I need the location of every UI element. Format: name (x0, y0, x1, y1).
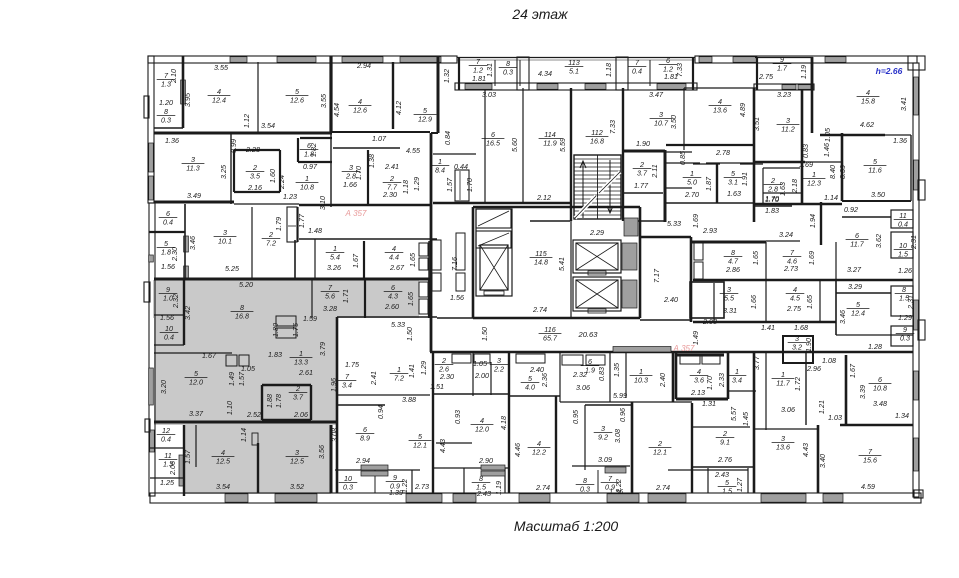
svg-text:1.49: 1.49 (227, 372, 236, 386)
wall grid horizontal (154, 132, 332, 135)
svg-text:5.60: 5.60 (510, 138, 519, 152)
svg-text:1.88: 1.88 (265, 394, 274, 408)
svg-text:4.12: 4.12 (394, 101, 403, 115)
svg-text:1.57: 1.57 (183, 449, 192, 464)
svg-text:10.8: 10.8 (873, 384, 887, 393)
svg-text:2.74: 2.74 (532, 305, 547, 314)
svg-text:1.65: 1.65 (408, 252, 417, 267)
svg-text:0.4: 0.4 (632, 67, 642, 76)
staircase (574, 155, 621, 219)
svg-text:4.3: 4.3 (388, 292, 398, 301)
svg-text:5.1: 5.1 (569, 67, 579, 76)
svg-text:8.40: 8.40 (828, 165, 837, 179)
svg-text:2.00: 2.00 (474, 371, 489, 380)
svg-text:3.06: 3.06 (781, 405, 795, 414)
outer wall right band (913, 63, 919, 497)
svg-text:0.83: 0.83 (597, 367, 606, 381)
svg-text:3.28: 3.28 (323, 304, 337, 313)
svg-text:7.2: 7.2 (394, 374, 404, 383)
svg-text:2.13: 2.13 (690, 388, 705, 397)
svg-text:2.86: 2.86 (725, 265, 740, 274)
svg-text:65.7: 65.7 (543, 334, 558, 343)
svg-text:3.10: 3.10 (318, 196, 327, 210)
svg-text:1.83: 1.83 (268, 350, 282, 359)
svg-text:2.90: 2.90 (478, 456, 493, 465)
svg-text:2.75: 2.75 (758, 72, 774, 81)
svg-text:3.5: 3.5 (250, 172, 261, 181)
svg-text:4.0: 4.0 (525, 383, 535, 392)
svg-text:16.8: 16.8 (590, 137, 604, 146)
svg-text:3.54: 3.54 (216, 482, 230, 491)
svg-text:h=2.66: h=2.66 (876, 66, 903, 76)
svg-text:2.43: 2.43 (476, 489, 491, 498)
svg-text:0.96: 0.96 (618, 408, 627, 422)
svg-text:2.40: 2.40 (663, 295, 678, 304)
svg-text:3.23: 3.23 (777, 90, 791, 99)
svg-text:7.16: 7.16 (450, 257, 459, 271)
top window hatches (230, 57, 247, 63)
svg-text:1.18: 1.18 (401, 180, 410, 194)
svg-text:1.67: 1.67 (202, 351, 217, 360)
svg-text:1.05: 1.05 (473, 359, 488, 368)
svg-text:1.5: 1.5 (898, 250, 909, 259)
svg-text:1.57: 1.57 (445, 177, 454, 192)
svg-text:1.5: 1.5 (722, 487, 733, 496)
svg-text:1.90: 1.90 (804, 338, 813, 352)
svg-text:1.81: 1.81 (472, 74, 486, 83)
svg-text:2.93: 2.93 (702, 226, 717, 235)
left small tabs (144, 96, 149, 118)
svg-text:12.6: 12.6 (290, 96, 304, 105)
svg-text:0.3: 0.3 (161, 116, 171, 125)
svg-text:3.46: 3.46 (838, 310, 847, 324)
svg-text:1.65: 1.65 (751, 250, 760, 265)
svg-text:5.41: 5.41 (557, 257, 566, 271)
svg-text:12.2: 12.2 (532, 448, 546, 457)
svg-text:2.40: 2.40 (658, 373, 667, 388)
svg-text:1.56: 1.56 (160, 313, 174, 322)
svg-text:1.28: 1.28 (868, 342, 882, 351)
svg-text:11.7: 11.7 (776, 379, 790, 388)
svg-text:12.1: 12.1 (653, 448, 667, 457)
balcony piers (517, 57, 529, 90)
svg-text:3.48: 3.48 (873, 399, 887, 408)
svg-text:3.06: 3.06 (576, 383, 590, 392)
svg-text:2.76: 2.76 (717, 455, 732, 464)
svg-text:1.69: 1.69 (807, 251, 816, 265)
svg-text:1.07: 1.07 (372, 134, 387, 143)
svg-text:10.1: 10.1 (218, 237, 232, 246)
svg-text:3.2: 3.2 (792, 343, 802, 352)
svg-text:1.75: 1.75 (345, 360, 360, 369)
svg-text:4.18: 4.18 (499, 416, 508, 430)
svg-text:0.3: 0.3 (900, 334, 910, 343)
svg-text:2.12: 2.12 (536, 193, 551, 202)
svg-text:20.63: 20.63 (577, 330, 598, 339)
svg-text:0.85: 0.85 (678, 150, 687, 165)
svg-text:3.50: 3.50 (871, 190, 885, 199)
svg-text:1.50: 1.50 (405, 327, 414, 341)
svg-text:3.77: 3.77 (752, 355, 761, 370)
svg-text:2.73: 2.73 (783, 264, 798, 273)
svg-text:10.3: 10.3 (634, 376, 648, 385)
svg-text:1.70: 1.70 (705, 376, 714, 390)
svg-text:1.66: 1.66 (749, 295, 758, 309)
svg-text:11.3: 11.3 (186, 164, 199, 173)
svg-text:13.3: 13.3 (294, 358, 308, 367)
svg-text:3.52: 3.52 (290, 482, 304, 491)
svg-text:3.29: 3.29 (848, 282, 862, 291)
svg-text:3.46: 3.46 (188, 236, 197, 250)
svg-text:3.51: 3.51 (752, 117, 761, 131)
svg-text:1.70: 1.70 (465, 178, 474, 192)
svg-text:А 357: А 357 (345, 209, 367, 218)
svg-text:2.18: 2.18 (790, 179, 799, 194)
svg-text:12.5: 12.5 (290, 457, 305, 466)
svg-text:1.57: 1.57 (237, 371, 246, 386)
svg-text:1.82: 1.82 (309, 143, 318, 157)
svg-text:2.33: 2.33 (717, 373, 726, 388)
svg-text:1.69: 1.69 (691, 214, 700, 228)
svg-text:2.31: 2.31 (906, 295, 915, 310)
svg-text:1.67: 1.67 (848, 363, 857, 378)
svg-text:12.0: 12.0 (189, 378, 203, 387)
svg-text:2.96: 2.96 (806, 364, 821, 373)
svg-text:10.7: 10.7 (654, 119, 669, 128)
svg-text:11.9: 11.9 (543, 139, 556, 148)
svg-text:3.42: 3.42 (183, 306, 192, 320)
svg-text:4.5: 4.5 (790, 294, 801, 303)
shaded apartment fill (154, 280, 419, 318)
svg-text:2.73: 2.73 (414, 482, 429, 491)
svg-text:3.27: 3.27 (847, 265, 862, 274)
svg-text:5.0: 5.0 (687, 178, 697, 187)
svg-text:7.33: 7.33 (675, 63, 684, 77)
svg-text:2.40: 2.40 (529, 365, 544, 374)
svg-text:2.30: 2.30 (170, 247, 179, 262)
svg-text:2.06: 2.06 (168, 461, 177, 476)
svg-text:10.8: 10.8 (300, 183, 314, 192)
svg-text:3.55: 3.55 (319, 93, 328, 108)
svg-text:1.78: 1.78 (274, 394, 283, 408)
svg-text:1.29: 1.29 (412, 177, 421, 191)
svg-text:4.59: 4.59 (861, 482, 875, 491)
svg-text:12.9: 12.9 (418, 115, 432, 124)
svg-text:3.62: 3.62 (874, 234, 883, 248)
balcony band top line (457, 57, 695, 59)
svg-text:1.29: 1.29 (898, 313, 912, 322)
svg-text:7.17: 7.17 (652, 268, 661, 283)
svg-text:1.70: 1.70 (354, 166, 363, 180)
svg-text:15.8: 15.8 (861, 97, 875, 106)
svg-text:8.39: 8.39 (838, 165, 847, 179)
svg-text:1.12: 1.12 (242, 114, 251, 128)
svg-text:12.0: 12.0 (475, 425, 489, 434)
svg-text:3.95: 3.95 (183, 92, 192, 107)
svg-text:3.4: 3.4 (342, 381, 352, 390)
svg-text:2.06: 2.06 (293, 410, 308, 419)
svg-text:2.41: 2.41 (369, 371, 378, 386)
svg-text:1.03: 1.03 (828, 413, 842, 422)
svg-text:13.6: 13.6 (713, 106, 727, 115)
svg-text:0.3: 0.3 (503, 68, 513, 77)
svg-text:1.29: 1.29 (419, 361, 428, 375)
svg-text:1.70: 1.70 (765, 194, 779, 203)
svg-text:1.80: 1.80 (271, 323, 280, 337)
svg-text:2.52: 2.52 (246, 410, 261, 419)
svg-text:3.03: 3.03 (482, 90, 496, 99)
svg-text:11.7: 11.7 (850, 240, 864, 249)
right small tabs (918, 180, 925, 200)
svg-text:2.28: 2.28 (245, 145, 260, 154)
right window hatches (914, 77, 919, 115)
svg-text:24 этаж: 24 этаж (511, 6, 569, 22)
svg-text:5.59: 5.59 (558, 138, 567, 152)
svg-text:1.68: 1.68 (794, 323, 808, 332)
svg-text:1.49: 1.49 (691, 331, 700, 345)
svg-text:2.74: 2.74 (655, 483, 670, 492)
svg-text:1.39: 1.39 (389, 488, 403, 497)
svg-text:1.26: 1.26 (898, 266, 912, 275)
svg-text:12.3: 12.3 (807, 179, 821, 188)
svg-text:1.19: 1.19 (799, 65, 808, 79)
svg-text:1.14: 1.14 (824, 193, 838, 202)
svg-text:1.36: 1.36 (893, 136, 907, 145)
svg-text:1.69: 1.69 (799, 160, 813, 169)
svg-text:3.55: 3.55 (214, 63, 229, 72)
svg-text:2.29: 2.29 (589, 228, 604, 237)
svg-text:0.94: 0.94 (376, 405, 385, 419)
svg-text:0.4: 0.4 (164, 333, 174, 342)
elevator shaft right 1 (573, 240, 621, 273)
svg-text:2.30: 2.30 (382, 190, 397, 199)
svg-text:2.43: 2.43 (714, 470, 729, 479)
svg-text:1.71: 1.71 (341, 289, 350, 303)
svg-text:0.3: 0.3 (580, 485, 590, 494)
svg-text:4.43: 4.43 (438, 439, 447, 453)
svg-text:3.26: 3.26 (327, 263, 341, 272)
svg-text:4.62: 4.62 (860, 120, 874, 129)
svg-text:0.83: 0.83 (801, 144, 810, 158)
svg-text:1.23: 1.23 (283, 192, 297, 201)
svg-text:1.35: 1.35 (612, 362, 621, 377)
svg-text:1.31: 1.31 (702, 399, 716, 408)
svg-text:0.4: 0.4 (898, 220, 908, 229)
svg-text:1.72: 1.72 (793, 377, 802, 391)
svg-text:А 357: А 357 (673, 344, 695, 353)
svg-text:2.10: 2.10 (169, 69, 178, 84)
svg-text:12.6: 12.6 (353, 106, 367, 115)
svg-text:1.21: 1.21 (817, 400, 826, 414)
svg-text:12.4: 12.4 (212, 96, 226, 105)
svg-text:5.57: 5.57 (729, 406, 738, 421)
svg-text:0.3: 0.3 (343, 483, 353, 492)
svg-text:1.7: 1.7 (777, 64, 788, 73)
svg-text:3.31: 3.31 (723, 306, 737, 315)
svg-text:3.7: 3.7 (293, 393, 304, 402)
svg-text:1.56: 1.56 (161, 262, 175, 271)
svg-text:1.94: 1.94 (808, 214, 817, 228)
closets (226, 355, 237, 366)
svg-text:3.79: 3.79 (318, 342, 327, 356)
elevator shaft left (476, 209, 512, 296)
svg-text:1.41: 1.41 (407, 364, 416, 378)
svg-text:3.41: 3.41 (899, 97, 908, 111)
svg-text:1.14: 1.14 (239, 428, 248, 442)
svg-text:1.67: 1.67 (351, 253, 360, 268)
svg-text:3.09: 3.09 (598, 455, 612, 464)
svg-text:8.4: 8.4 (435, 166, 445, 175)
svg-text:2.67: 2.67 (389, 263, 405, 272)
svg-text:16.5: 16.5 (486, 139, 501, 148)
svg-text:13.6: 13.6 (776, 443, 790, 452)
svg-text:2.93: 2.93 (702, 317, 717, 326)
svg-text:1.83: 1.83 (765, 206, 779, 215)
svg-text:1.27: 1.27 (735, 477, 744, 492)
svg-text:1.65: 1.65 (805, 294, 814, 309)
svg-text:2.8: 2.8 (767, 185, 778, 194)
svg-text:5.99: 5.99 (613, 391, 627, 400)
svg-text:1.91: 1.91 (740, 172, 749, 186)
svg-text:3.20: 3.20 (159, 380, 168, 394)
svg-text:1.76: 1.76 (291, 323, 300, 337)
svg-text:4.54: 4.54 (332, 103, 341, 117)
svg-text:12.1: 12.1 (413, 441, 427, 450)
svg-text:1.20: 1.20 (159, 98, 173, 107)
svg-text:2.75: 2.75 (786, 304, 802, 313)
svg-text:1.56: 1.56 (450, 293, 464, 302)
svg-text:1.19: 1.19 (494, 481, 503, 495)
svg-text:11.6: 11.6 (868, 166, 881, 175)
svg-text:4.46: 4.46 (513, 443, 522, 457)
svg-text:3.7: 3.7 (637, 169, 648, 178)
svg-text:2.61: 2.61 (298, 368, 313, 377)
svg-text:4.89: 4.89 (738, 103, 747, 117)
svg-text:5.33: 5.33 (391, 320, 405, 329)
svg-text:5.20: 5.20 (239, 280, 253, 289)
svg-text:2.74: 2.74 (535, 483, 550, 492)
svg-text:1.38: 1.38 (367, 154, 376, 168)
left window hatches (149, 143, 154, 172)
svg-text:1.05: 1.05 (823, 127, 832, 142)
svg-text:1.36: 1.36 (609, 487, 623, 496)
svg-text:3.54: 3.54 (261, 121, 275, 130)
svg-text:0.84: 0.84 (443, 131, 452, 145)
svg-text:3.4: 3.4 (732, 376, 742, 385)
svg-text:1.63: 1.63 (727, 189, 741, 198)
svg-text:4.55: 4.55 (406, 146, 421, 155)
svg-text:2.2: 2.2 (493, 365, 504, 374)
svg-text:2.78: 2.78 (715, 148, 730, 157)
svg-text:12.5: 12.5 (216, 457, 231, 466)
svg-text:3.88: 3.88 (402, 395, 416, 404)
svg-text:1.77: 1.77 (297, 213, 306, 228)
bottom window hatches (225, 494, 248, 502)
svg-text:1.34: 1.34 (895, 411, 909, 420)
svg-text:1.66: 1.66 (343, 180, 357, 189)
svg-text:5.4: 5.4 (330, 253, 340, 262)
svg-text:3.40: 3.40 (818, 454, 827, 468)
svg-text:3.49: 3.49 (187, 191, 201, 200)
svg-text:12.4: 12.4 (851, 309, 865, 318)
svg-text:11.2: 11.2 (781, 125, 794, 134)
svg-text:1.46: 1.46 (822, 143, 831, 157)
svg-text:2.24: 2.24 (277, 175, 286, 190)
svg-text:2.60: 2.60 (384, 302, 399, 311)
svg-text:5.33: 5.33 (667, 219, 681, 228)
svg-text:3.24: 3.24 (779, 230, 793, 239)
svg-text:2.31: 2.31 (909, 235, 918, 250)
svg-text:5.5: 5.5 (724, 294, 735, 303)
svg-text:3.50: 3.50 (669, 115, 678, 129)
outer wall top band (148, 56, 457, 63)
svg-text:1.96: 1.96 (329, 378, 338, 392)
svg-text:9.2: 9.2 (598, 433, 608, 442)
svg-text:4.34: 4.34 (538, 69, 552, 78)
svg-text:3.25: 3.25 (219, 164, 228, 179)
svg-text:1.60: 1.60 (268, 169, 277, 183)
svg-text:2.94: 2.94 (355, 456, 370, 465)
svg-text:7.33: 7.33 (608, 120, 617, 134)
svg-text:1.63: 1.63 (778, 182, 787, 196)
svg-text:2.11: 2.11 (650, 164, 659, 178)
elevator shaft right 2 (573, 277, 621, 311)
svg-text:2.36: 2.36 (540, 373, 549, 388)
svg-text:5.6: 5.6 (325, 292, 335, 301)
svg-text:0.4: 0.4 (163, 218, 173, 227)
svg-text:1.77: 1.77 (634, 181, 649, 190)
svg-text:3.56: 3.56 (317, 445, 326, 459)
svg-text:1.87: 1.87 (704, 176, 713, 191)
svg-text:1.48: 1.48 (308, 226, 322, 235)
svg-text:5.25: 5.25 (225, 264, 240, 273)
svg-text:2.70: 2.70 (684, 190, 699, 199)
svg-text:0.93: 0.93 (453, 410, 462, 424)
svg-text:15.6: 15.6 (863, 456, 877, 465)
svg-text:2.41: 2.41 (384, 162, 399, 171)
svg-text:8.9: 8.9 (360, 434, 370, 443)
outer wall left band (148, 56, 154, 203)
svg-text:0.4: 0.4 (161, 435, 171, 444)
svg-text:2.94: 2.94 (356, 61, 371, 70)
svg-text:3.6: 3.6 (694, 376, 704, 385)
outer wall bottom band (150, 493, 921, 503)
svg-text:14.8: 14.8 (534, 258, 548, 267)
svg-text:3.37: 3.37 (189, 409, 204, 418)
svg-text:1.25: 1.25 (160, 478, 175, 487)
svg-text:1.50: 1.50 (480, 327, 489, 341)
svg-text:1.79: 1.79 (274, 217, 283, 231)
svg-text:1.51: 1.51 (430, 382, 444, 391)
svg-text:9.1: 9.1 (720, 438, 730, 447)
svg-text:7.2: 7.2 (266, 239, 276, 248)
svg-text:3.39: 3.39 (858, 385, 867, 399)
svg-text:2.32: 2.32 (171, 294, 180, 309)
balcony 9/1.7 top right (755, 57, 813, 59)
svg-text:0.97: 0.97 (303, 162, 318, 171)
svg-text:2.16: 2.16 (247, 183, 262, 192)
svg-text:3.08: 3.08 (330, 428, 339, 442)
svg-text:3.1: 3.1 (728, 178, 738, 187)
svg-text:16.8: 16.8 (235, 312, 249, 321)
svg-text:0.99: 0.99 (229, 139, 238, 153)
svg-text:3.08: 3.08 (613, 429, 622, 443)
svg-text:0.95: 0.95 (571, 409, 580, 424)
svg-text:1.18: 1.18 (604, 63, 613, 77)
svg-text:1.32: 1.32 (442, 69, 451, 83)
svg-text:2.32: 2.32 (572, 370, 587, 379)
svg-text:1.36: 1.36 (165, 136, 179, 145)
